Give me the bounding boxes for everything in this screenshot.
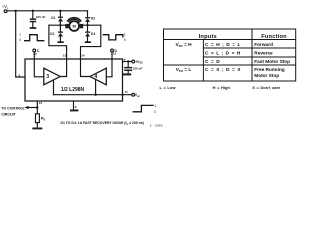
svg-text:D1: D1: [51, 16, 55, 20]
node: right bridge junction: [86, 24, 88, 26]
svg-text:C = X ; D = X: C = X ; D = X: [205, 67, 241, 73]
wire: motor bus: [49, 24, 101, 26]
svg-text:Ven = L: Ven = L: [176, 67, 192, 73]
terminal +Vs: [4, 10, 7, 13]
diode D2: [59, 25, 61, 41]
svg-text:L = Low: L = Low: [160, 85, 177, 90]
svg-text:1: 1: [19, 33, 21, 37]
svg-text:100 nF: 100 nF: [36, 15, 46, 19]
ground below RS: [32, 128, 42, 130]
wire: left output to pin 13: [49, 25, 67, 59]
svg-text:14: 14: [81, 54, 85, 58]
pin 15 stub: [36, 101, 38, 114]
capacitor C1 plates: [30, 18, 36, 20]
svg-text:+Vs: +Vs: [2, 4, 9, 10]
pin 8 stub: [73, 101, 75, 110]
svg-text:12: 12: [113, 51, 117, 55]
svg-text:D3: D3: [91, 16, 95, 20]
svg-text:D4: D4: [91, 32, 95, 36]
amplifier 4: [90, 68, 106, 85]
ground below C1: [30, 27, 37, 29]
svg-text:D2: D2: [50, 32, 54, 36]
node: +Vss junction: [127, 60, 129, 62]
svg-text:D1 TO D4: 1A FAST RECOVERY DIO: D1 TO D4: 1A FAST RECOVERY DIODE (trr ≤ …: [61, 121, 144, 126]
resistor RS: [36, 114, 40, 123]
wire: input C inside box: [34, 59, 44, 77]
capacitor C2 plates: [124, 67, 132, 69]
svg-text:C = H ; D = L: C = H ; D = L: [205, 42, 240, 48]
svg-text:1: 1: [154, 104, 156, 108]
input C waveform: [25, 35, 44, 41]
motor M1 right lug: [80, 24, 83, 28]
svg-text:11: 11: [125, 90, 129, 94]
wire: to control circuit with arrow: [28, 107, 37, 109]
terminal +Vss: [132, 60, 135, 63]
node: left bridge junction: [59, 24, 61, 26]
terminal Ven: [132, 93, 135, 96]
node: enable at box edge: [121, 94, 123, 96]
svg-text:C: C: [37, 49, 40, 53]
wire: pin 9 to +Vss: [123, 61, 132, 63]
wire: +Vs feed down to pin 4: [16, 11, 25, 77]
svg-text:0: 0: [124, 38, 126, 42]
motor M1 left lug: [65, 24, 68, 28]
amplifier 3: [44, 68, 60, 85]
svg-text:Free Running: Free Running: [254, 67, 284, 73]
terminal C: [33, 49, 36, 52]
diode D3: [87, 11, 89, 25]
motor M1 body: [69, 21, 79, 31]
svg-text:1: 1: [124, 32, 126, 36]
svg-text:Fast Motor Stop: Fast Motor Stop: [254, 59, 290, 65]
svg-text:X = Don't care: X = Don't care: [252, 85, 281, 90]
svg-text:TO CONTROL: TO CONTROL: [1, 107, 25, 111]
svg-text:1/2 L298N: 1/2 L298N: [61, 87, 85, 93]
svg-text:0: 0: [154, 110, 156, 114]
svg-text:3: 3: [46, 74, 49, 80]
svg-text:CIRCUIT: CIRCUIT: [1, 112, 16, 116]
wire: enable tap from amp 4: [95, 79, 97, 94]
svg-text:Motor Stop: Motor Stop: [254, 73, 279, 79]
truth table frame: [164, 29, 296, 81]
capacitor C1 leads: [32, 11, 34, 27]
svg-text:Ven = H: Ven = H: [175, 42, 192, 48]
ground below pin 8: [70, 110, 78, 112]
wire: C input to pin 10: [33, 52, 35, 59]
wire: output 3 to pin 13: [60, 59, 66, 77]
node: rail junction at D1: [59, 10, 61, 12]
node: rail junction at C1: [32, 10, 34, 12]
wire: output 4 to pin 14: [81, 59, 91, 77]
wire below RS: [36, 123, 38, 128]
svg-text:Forward: Forward: [254, 42, 273, 48]
wire: D input to pin 12: [111, 52, 113, 59]
diode D4: [87, 25, 89, 41]
svg-text:Function: Function: [261, 34, 287, 40]
wire: right output to pin 14: [81, 25, 101, 59]
input D waveform: [103, 35, 123, 40]
svg-text:8: 8: [75, 105, 77, 109]
ground below D2: [58, 41, 64, 43]
node: sense junction: [36, 106, 38, 108]
ground below D4: [85, 41, 91, 43]
svg-text:Inputs: Inputs: [199, 34, 217, 40]
terminal D: [111, 49, 114, 52]
node: enable junction at amp 4: [94, 94, 96, 96]
Ven enable waveform: [133, 105, 153, 111]
IC U1 1/2 L298N box: [25, 59, 123, 101]
wire: input D inside box: [106, 59, 112, 77]
capacitor C2 leads: [127, 62, 129, 74]
truth table column dividers: [203, 29, 252, 81]
ground below C2: [122, 73, 131, 75]
wire: enable tap from amp 3: [53, 80, 55, 95]
svg-text:H = High: H = High: [213, 85, 231, 90]
svg-text:15: 15: [39, 101, 43, 105]
svg-text:10: 10: [33, 52, 37, 56]
truth table row lines: [164, 40, 296, 66]
svg-text:+VSS: +VSS: [135, 60, 143, 65]
wire: enable line to Ven: [54, 94, 132, 96]
svg-text:Ven: Ven: [135, 93, 141, 98]
svg-text:Reverse: Reverse: [254, 51, 273, 57]
svg-text:100 nF: 100 nF: [133, 67, 143, 71]
svg-text:5 - 5889: 5 - 5889: [150, 123, 163, 127]
svg-text:RS: RS: [41, 117, 46, 122]
diode D1: [59, 11, 61, 25]
svg-text:13: 13: [63, 54, 67, 58]
svg-text:C = L ; D = H: C = L ; D = H: [205, 51, 241, 57]
motor M1 rotation arcs: [68, 18, 81, 21]
node: rail junction to pin 4 feed: [15, 10, 17, 12]
svg-text:0: 0: [19, 38, 21, 42]
wire: +Vs top rail: [7, 10, 87, 12]
svg-text:C = D: C = D: [205, 59, 220, 65]
